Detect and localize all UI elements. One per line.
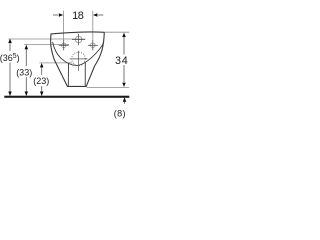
dimension line 36.5	[8, 39, 12, 96]
stem inner edge right	[84, 63, 86, 87]
extension line 23 (outlet)	[39, 62, 72, 64]
svg-text:(33): (33)	[16, 68, 32, 78]
extension line 36.5 (supply axis)	[8, 38, 85, 40]
outlet circle dashed	[70, 51, 88, 71]
dimension 18 arrow left	[53, 13, 63, 17]
dimension 18 arrow right	[93, 13, 103, 17]
svg-text:34: 34	[115, 55, 129, 67]
dimension line 33	[25, 45, 29, 96]
WC bowl underside curve	[53, 42, 104, 65]
floor line	[4, 96, 129, 98]
extension line 18 left	[62, 11, 64, 41]
svg-text:18: 18	[72, 10, 84, 22]
extension line 18 right	[92, 11, 94, 41]
svg-text:(23): (23)	[33, 76, 49, 86]
stem inner edge left	[67, 63, 69, 86]
dimension (8) arrow	[123, 97, 127, 104]
dimension line 23	[40, 63, 44, 96]
fixing hole right crosshair	[88, 40, 98, 50]
extension line 33 (fixing holes axis)	[24, 44, 69, 46]
dimension line 34	[122, 33, 126, 87]
WC outer silhouette	[51, 32, 105, 86]
svg-text:(8): (8)	[114, 108, 126, 118]
extension line 34 bottom / (8) top	[87, 86, 130, 88]
water supply crosshair	[72, 34, 85, 46]
extension line 34 top	[105, 31, 129, 33]
svg-text:(365): (365)	[0, 53, 20, 63]
fixing hole left crosshair	[59, 40, 69, 50]
